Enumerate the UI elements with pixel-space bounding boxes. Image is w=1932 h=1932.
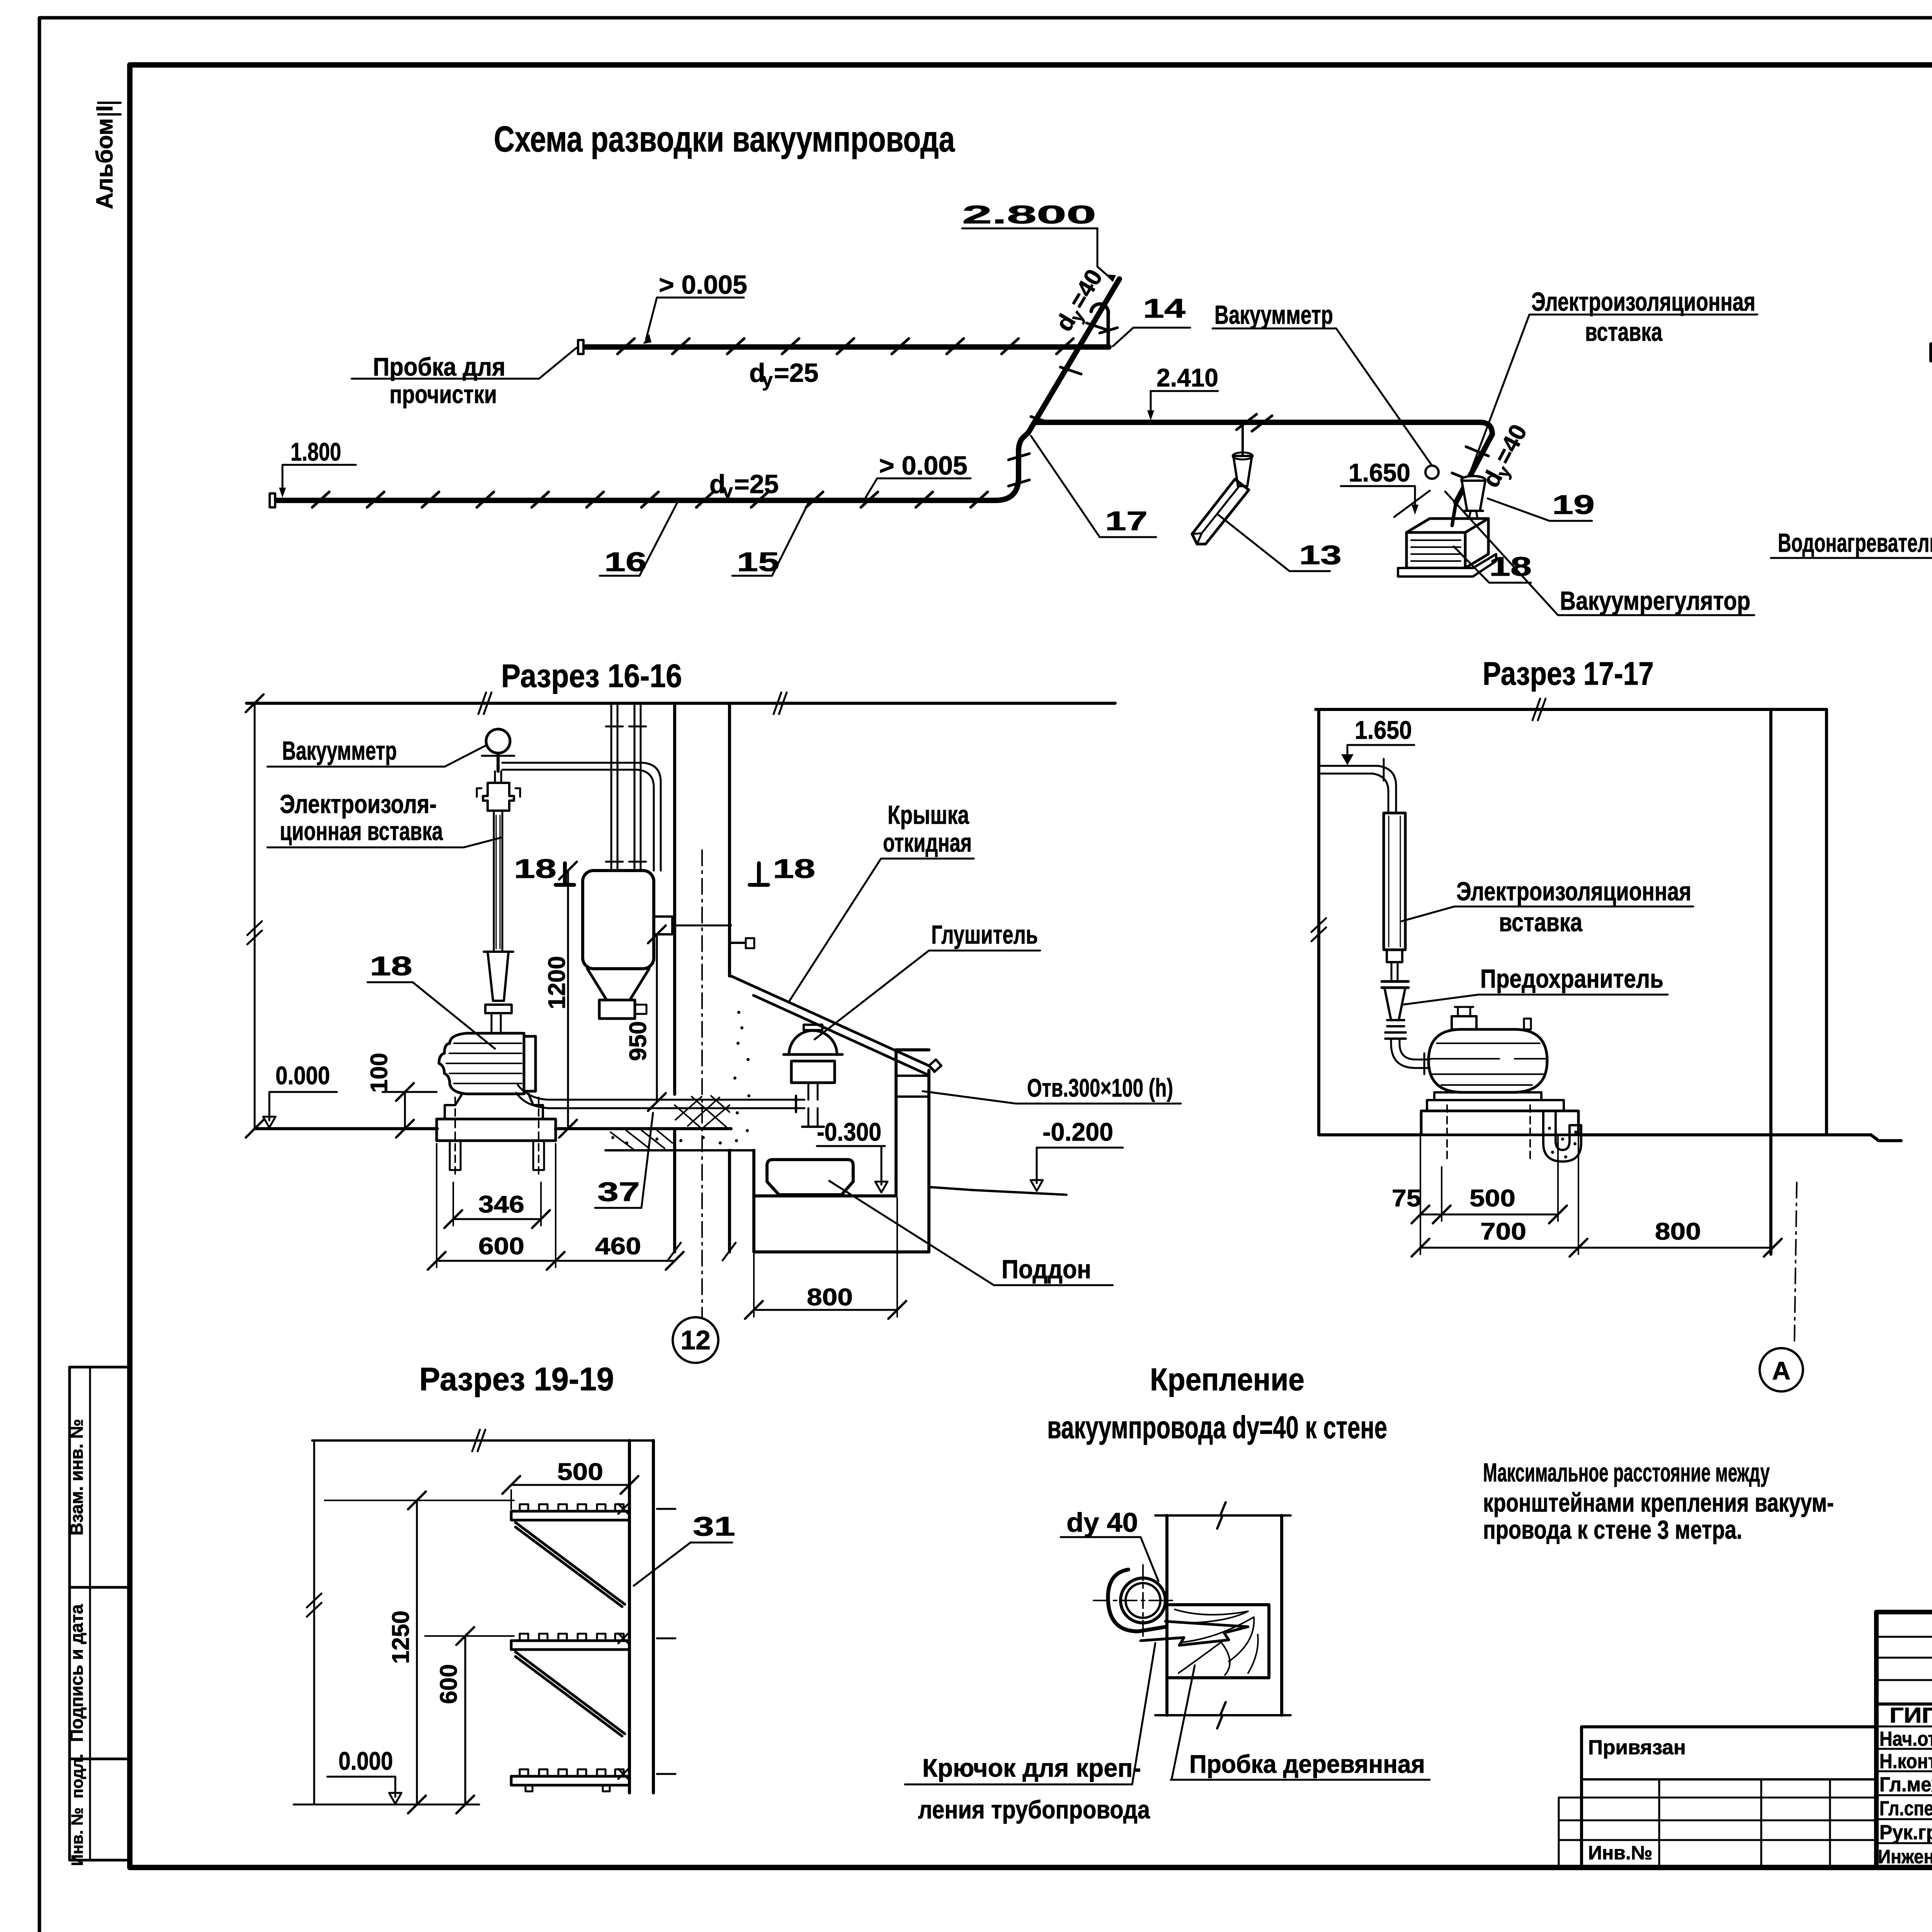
extension lines 17 bbox=[1420, 1137, 1578, 1254]
elbow into pump 17 bbox=[1391, 1039, 1430, 1068]
svg-text:Отв.300×100 (h): Отв.300×100 (h) bbox=[1027, 1073, 1173, 1102]
insulating insert body 17 bbox=[1384, 813, 1405, 950]
ceiling break marks bbox=[478, 692, 492, 714]
break marks pipe 2.410 bbox=[1236, 414, 1257, 430]
hatch ticks lower pipe bbox=[312, 492, 988, 507]
svg-text:dу 40: dу 40 bbox=[1066, 1507, 1138, 1537]
receiver side port bbox=[654, 917, 672, 934]
svg-text:950: 950 bbox=[625, 1021, 651, 1061]
foundation block 16 bbox=[437, 1119, 556, 1141]
svg-text:0.000: 0.000 bbox=[338, 1747, 393, 1775]
svg-text:у: у bbox=[722, 480, 733, 502]
dim line 75/500 bbox=[1420, 1214, 1558, 1216]
svg-text:500: 500 bbox=[557, 1459, 603, 1485]
plug upper pipe bbox=[578, 340, 583, 354]
svg-text:Инв.№: Инв.№ bbox=[1588, 1842, 1653, 1864]
svg-text:18: 18 bbox=[1489, 551, 1532, 582]
pipe riser diagonal dy=40 bbox=[1028, 279, 1119, 433]
cone of safety device 16 bbox=[488, 952, 509, 1001]
svg-text:19: 19 bbox=[1552, 490, 1595, 520]
svg-text:Вакуумметр: Вакуумметр bbox=[1214, 300, 1333, 330]
anchor bolts dashed bbox=[455, 1097, 539, 1178]
centerline cross detail bbox=[1094, 1600, 1175, 1601]
svg-text:Гл.мех.: Гл.мех. bbox=[1879, 1773, 1932, 1796]
branch stub 14 with hook bbox=[1091, 304, 1108, 346]
column axis 12 bbox=[701, 850, 703, 1317]
svg-text:вставка: вставка bbox=[1499, 908, 1583, 937]
insert apparatus column bbox=[494, 771, 496, 783]
svg-text:Схема разводки вакуумпровода: Схема разводки вакуумпровода bbox=[494, 119, 955, 159]
shelf bottom bbox=[511, 1776, 629, 1785]
drain trap 17 bbox=[1543, 1113, 1581, 1162]
pump bracket base bbox=[445, 1094, 543, 1119]
svg-text:Пробка для: Пробка для bbox=[373, 352, 505, 381]
ceiling line 17 bbox=[1316, 708, 1827, 711]
wall beam detail bbox=[1165, 1515, 1168, 1715]
svg-text:18: 18 bbox=[773, 854, 815, 884]
svg-text:Крышка: Крышка bbox=[888, 800, 969, 830]
svg-text:1.800: 1.800 bbox=[291, 437, 341, 466]
svg-text:600: 600 bbox=[478, 1233, 524, 1260]
axis bubble A bbox=[1760, 1348, 1803, 1391]
floor line mid bbox=[556, 1127, 731, 1130]
svg-text:100: 100 bbox=[366, 1053, 393, 1093]
svg-text:Привязан: Привязан bbox=[1588, 1736, 1686, 1759]
svg-text:Гл.спец.: Гл.спец. bbox=[1879, 1797, 1932, 1820]
svg-text:Инв. № подл.: Инв. № подл. bbox=[68, 1754, 86, 1866]
dim line 700/800 bbox=[1420, 1247, 1773, 1249]
drop pipe to item 13 bbox=[1242, 422, 1244, 456]
speckle dots floor structure bbox=[611, 1011, 750, 1145]
svg-text:Глушитель: Глушитель bbox=[931, 920, 1038, 949]
svg-text:Разрез 19-19: Разрез 19-19 bbox=[419, 1361, 614, 1397]
riser bend lower-to-diagonal bbox=[995, 433, 1028, 500]
svg-text:Крючок для креп-: Крючок для креп- bbox=[922, 1753, 1141, 1782]
svg-text:Крепление: Крепление bbox=[1150, 1362, 1304, 1397]
wall 19 bbox=[628, 1440, 631, 1793]
svg-text:кронштейнами крепления вакуум-: кронштейнами крепления вакуум- bbox=[1483, 1488, 1834, 1517]
shelf middle bbox=[511, 1641, 629, 1736]
svg-text:=25: =25 bbox=[734, 469, 779, 499]
right column 17 bbox=[1769, 709, 1772, 1254]
svg-text:Рук.гр.: Рук.гр. bbox=[1879, 1821, 1932, 1844]
svg-text:14: 14 bbox=[1143, 293, 1185, 323]
svg-text:31: 31 bbox=[693, 1511, 735, 1541]
underground pipe 37 bbox=[518, 1085, 804, 1100]
title block outline bbox=[1876, 1612, 1932, 1867]
sidebar cell vzam bbox=[70, 1367, 130, 1587]
svg-text:Инженер: Инженер bbox=[1878, 1846, 1932, 1867]
shelf top bbox=[511, 1511, 629, 1607]
hatch concrete band left of column bbox=[611, 1130, 672, 1150]
left wall 17 bbox=[1317, 709, 1320, 1135]
drop diagonal dy=40 to regulator bbox=[1456, 434, 1492, 502]
receiver top pipes bbox=[611, 703, 612, 871]
left dim line vertical bbox=[254, 703, 256, 1129]
svg-text:346: 346 bbox=[478, 1191, 524, 1218]
ticks on riser bbox=[1009, 323, 1107, 486]
svg-text:А: А bbox=[1772, 1356, 1791, 1385]
svg-text:1.650: 1.650 bbox=[1355, 716, 1412, 744]
svg-text:вакуумпровода dу=40 к стене: вакуумпровода dу=40 к стене bbox=[1047, 1410, 1387, 1445]
outside grade line bbox=[929, 1187, 1066, 1195]
svg-text:1200: 1200 bbox=[544, 956, 570, 1009]
top line 19 bbox=[312, 1439, 653, 1442]
wall column 16 bbox=[673, 703, 676, 1094]
svg-text:17: 17 bbox=[1105, 506, 1148, 536]
svg-text:Электроизоляционная: Электроизоляционная bbox=[1456, 877, 1691, 906]
wall fixing stub bbox=[730, 942, 746, 944]
svg-text:ления трубопровода: ления трубопровода bbox=[918, 1795, 1150, 1824]
pipe from wall 17 bbox=[1319, 765, 1378, 767]
vacuum gauge circle bbox=[486, 729, 510, 753]
svg-text:Предохранитель: Предохранитель bbox=[1480, 964, 1663, 993]
svg-text:Поддон: Поддон bbox=[1002, 1255, 1091, 1284]
floor line 17 bbox=[1319, 1133, 1421, 1136]
label dy=40 drop bbox=[1477, 420, 1535, 493]
svg-text:Нач.отд.: Нач.отд. bbox=[1879, 1728, 1932, 1750]
axis bubble 12 bbox=[673, 1317, 718, 1363]
svg-text:у: у bbox=[762, 369, 773, 391]
gauge pipe horizontal double bbox=[502, 762, 643, 764]
svg-text:2.800: 2.800 bbox=[962, 200, 1096, 229]
svg-text:Вакуумрегулятор: Вакуумрегулятор bbox=[1560, 586, 1750, 616]
svg-text:800: 800 bbox=[807, 1284, 853, 1311]
album label bbox=[66, 103, 130, 1866]
svg-text:Вакуумметр: Вакуумметр bbox=[282, 736, 397, 765]
svg-text:2.410: 2.410 bbox=[1156, 363, 1218, 392]
svg-text:Пробка деревянная: Пробка деревянная bbox=[1189, 1750, 1425, 1778]
signature table rows bbox=[1876, 1636, 1932, 1638]
svg-text:Максимальное расстояние между: Максимальное расстояние между bbox=[1483, 1458, 1770, 1487]
svg-text:Н.контр.: Н.контр. bbox=[1879, 1750, 1932, 1773]
svg-text:600: 600 bbox=[435, 1664, 462, 1704]
safety device cone 17 bbox=[1382, 980, 1408, 983]
svg-text:Взам. инв. №: Взам. инв. № bbox=[66, 1419, 87, 1536]
floor line left bbox=[255, 1127, 437, 1130]
ceiling line bbox=[247, 702, 1115, 705]
title block texts bbox=[1878, 1632, 1932, 1906]
compensator symbol bbox=[1931, 344, 1932, 425]
svg-text:> 0.005: > 0.005 bbox=[879, 451, 968, 480]
svg-text:Подпись и дата: Подпись и дата bbox=[66, 1604, 87, 1742]
crosshatch sleeve in wall bbox=[675, 1096, 730, 1129]
svg-text:Альбом I: Альбом I bbox=[92, 105, 117, 209]
svg-text:75: 75 bbox=[1392, 1185, 1421, 1212]
right end bend of 2.410 pipe bbox=[1480, 422, 1492, 434]
svg-text:700: 700 bbox=[1480, 1218, 1526, 1245]
svg-text:460: 460 bbox=[595, 1233, 641, 1260]
svg-text:откидная: откидная bbox=[883, 828, 972, 857]
funnel on drop bbox=[1233, 456, 1252, 486]
gauge pipe elbow to receiver bbox=[643, 763, 661, 871]
hook around pipe bbox=[1108, 1570, 1166, 1631]
svg-text:> 0.005: > 0.005 bbox=[659, 270, 747, 299]
svg-text:37: 37 bbox=[597, 1177, 640, 1207]
receiver tank bbox=[583, 871, 654, 969]
muffler 16 bbox=[789, 1031, 837, 1054]
svg-text:500: 500 bbox=[1469, 1185, 1515, 1212]
svg-text:800: 800 bbox=[1655, 1218, 1701, 1245]
svg-text:-0.300: -0.300 bbox=[817, 1117, 881, 1146]
pump top nozzle bbox=[1452, 1016, 1476, 1029]
svg-text:ционная вставка: ционная вставка bbox=[280, 816, 443, 846]
pit walls bbox=[752, 1150, 755, 1196]
pipe circle detail bbox=[1121, 1578, 1165, 1623]
pipe dy=25 lower bbox=[277, 498, 995, 503]
vacuum pump 16 body bbox=[439, 1033, 524, 1094]
column axis 17 bbox=[1794, 1182, 1797, 1341]
svg-text:Разрез 16-16: Разрез 16-16 bbox=[501, 658, 682, 694]
vacuum regulator and pump 18 bbox=[1406, 519, 1488, 532]
svg-text:12: 12 bbox=[680, 1325, 711, 1355]
svg-text:-0.200: -0.200 bbox=[1043, 1117, 1113, 1146]
svg-text:1.650: 1.650 bbox=[1349, 458, 1410, 487]
vacuum gauge small circle bbox=[1425, 466, 1439, 479]
hinged lid slope bbox=[731, 976, 929, 1066]
insert lower flange bbox=[1387, 950, 1402, 962]
svg-text:Разрез 17-17: Разрез 17-17 bbox=[1483, 655, 1654, 692]
anchor bolts 17 bbox=[1447, 1105, 1530, 1163]
label dy=40 riser bbox=[1051, 265, 1111, 337]
svg-text:18: 18 bbox=[370, 951, 412, 981]
svg-text:вставка: вставка bbox=[1585, 317, 1663, 347]
svg-text:=25: =25 bbox=[774, 358, 818, 388]
svg-text:13: 13 bbox=[1299, 540, 1342, 570]
svg-text:ГИП: ГИП bbox=[1889, 1703, 1932, 1727]
svg-text:18: 18 bbox=[514, 854, 556, 884]
tray poddon bbox=[767, 1160, 853, 1195]
svg-text:провода к стене 3 метра.: провода к стене 3 метра. bbox=[1483, 1515, 1742, 1544]
pipe horizontal 2.410 level bbox=[1035, 420, 1480, 425]
pump body 17 bbox=[1429, 1029, 1547, 1092]
sidebar cell podpis bbox=[70, 1587, 130, 1759]
hatch ticks upper pipe bbox=[617, 338, 1073, 354]
svg-text:Электроизоля-: Электроизоля- bbox=[280, 789, 437, 819]
svg-text:прочистки: прочистки bbox=[389, 380, 497, 408]
pipe dy=25 upper bbox=[586, 344, 1109, 350]
item 13 long bar bbox=[1192, 479, 1249, 544]
svg-text:1250: 1250 bbox=[388, 1611, 414, 1664]
plug lower pipe bbox=[270, 493, 275, 507]
wall fixing marks 19 bbox=[618, 1504, 675, 1779]
funnel device 19 bbox=[1461, 476, 1485, 484]
left dim line 19 bbox=[313, 1440, 315, 1804]
svg-text:Электроизоляционная: Электроизоляционная bbox=[1531, 287, 1755, 316]
pump base plates 17 bbox=[1434, 1092, 1541, 1100]
svg-text:0.000: 0.000 bbox=[276, 1061, 330, 1090]
sidebar cell inv bbox=[70, 1759, 130, 1860]
wood plug grain bbox=[1169, 1605, 1269, 1678]
svg-text:Водонагреватель: Водонагреватель bbox=[1778, 528, 1932, 558]
